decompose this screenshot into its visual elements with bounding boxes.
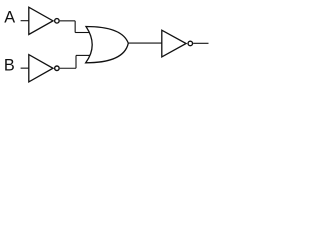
svg-text:B: B — [4, 56, 15, 74]
wire B stub into OR gate — [76, 54, 91, 56]
wire A to inverter U1 — [21, 20, 29, 22]
inverter U1 — [29, 7, 59, 34]
wire OR output to inverter U4 — [128, 42, 162, 44]
wire U2 output to corner — [60, 67, 76, 69]
svg-text:A: A — [4, 9, 15, 27]
wire A stub into OR gate — [75, 32, 91, 34]
wire vertical drop A path — [74, 21, 76, 33]
inverter U2 — [29, 55, 59, 82]
wire output — [193, 42, 208, 44]
inverter U4 — [162, 30, 193, 57]
OR gate U3 — [86, 27, 129, 63]
wire vertical rise B path — [75, 55, 77, 68]
wire U1 output to corner — [60, 20, 75, 22]
wire B to inverter U2 — [21, 67, 29, 69]
